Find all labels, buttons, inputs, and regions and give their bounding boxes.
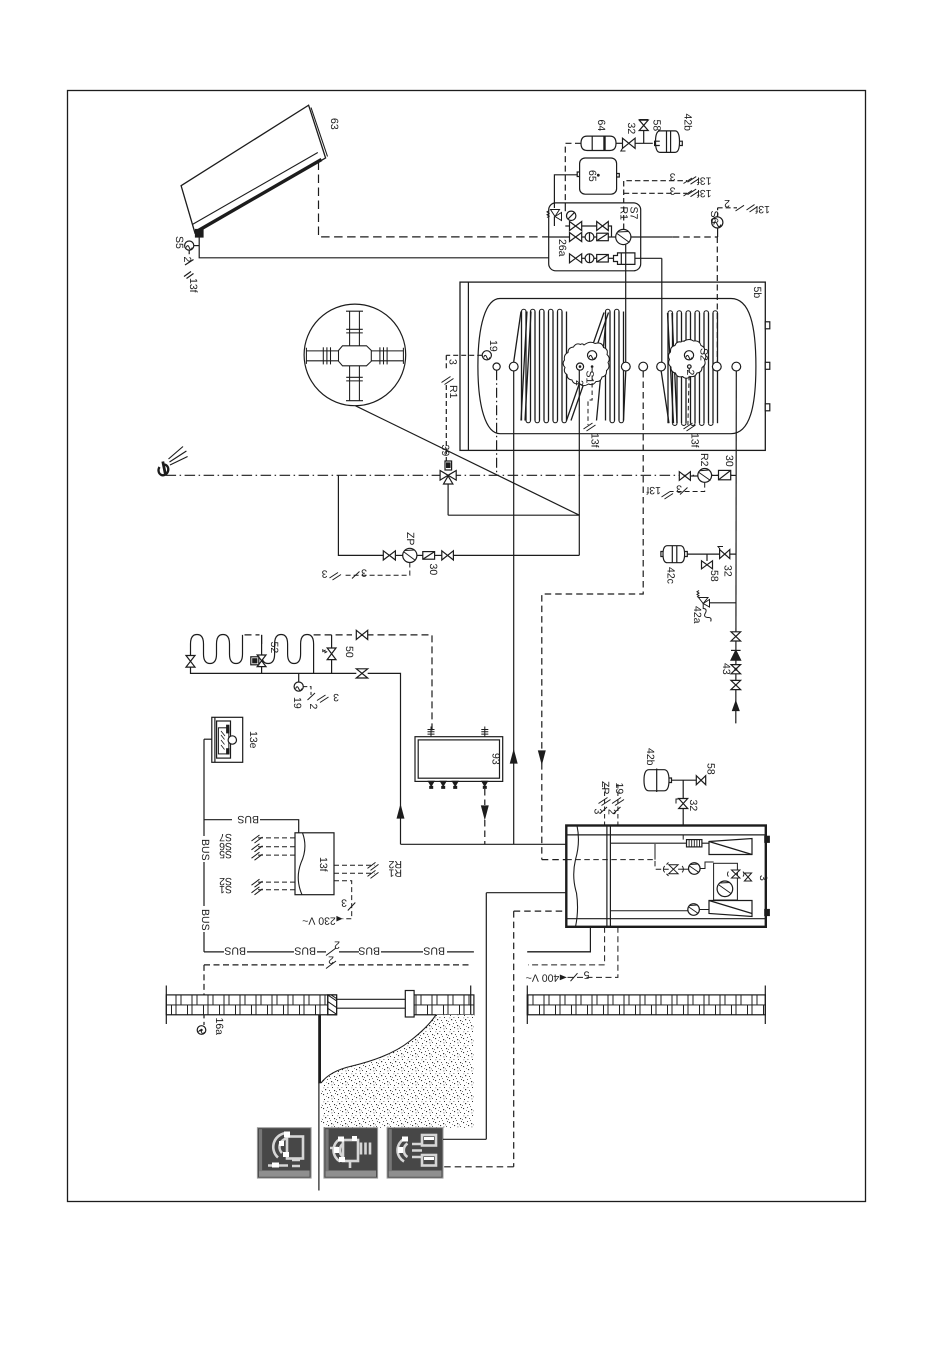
solar pump group 26a [549, 203, 641, 271]
svg-text:BUS: BUS [237, 813, 259, 825]
svg-text:2: 2 [307, 704, 319, 710]
svg-text:S5: S5 [219, 848, 232, 860]
svg-text:13f: 13f [187, 278, 199, 293]
junction box 93 [415, 737, 503, 782]
svg-text:S7: S7 [628, 207, 640, 220]
sensor S6 [712, 217, 723, 228]
svg-text:63: 63 [328, 118, 340, 130]
solar controller 65 [577, 158, 619, 194]
sensor blob S2 [668, 340, 705, 379]
S5 control line to 13f [184, 250, 194, 278]
valve with drain (43 line) [731, 665, 741, 674]
svg-text:13f: 13f [317, 857, 329, 872]
valve 58 (solar) [639, 120, 648, 144]
heating supply dashed [245, 635, 433, 733]
heat exchanger coil 2 [661, 311, 717, 426]
tank sensor 19 [482, 351, 491, 360]
valve (ZP chain left) [383, 551, 395, 560]
detail pointer line [356, 406, 580, 515]
icon solar water heating [257, 1128, 311, 1178]
overflow valve 50 [323, 635, 336, 674]
svg-text:BUS: BUS [199, 839, 211, 861]
svg-text:S6: S6 [708, 211, 720, 224]
svg-text:19: 19 [487, 340, 499, 352]
svg-text:S5: S5 [173, 236, 185, 249]
icon solar backup heating [324, 1128, 378, 1178]
pump bottom pipes [527, 927, 618, 981]
valve (43 line lower) [731, 680, 741, 689]
svg-text:3: 3 [592, 809, 604, 815]
dashed drop from 93 to heat pump [482, 789, 488, 844]
pipes into heat pump left [401, 844, 567, 1167]
outdoor sensor 16a [197, 1026, 206, 1035]
svg-text:65: 65 [586, 170, 598, 182]
svg-text:BUS: BUS [199, 909, 211, 931]
wire 65 to pump group [554, 175, 577, 208]
heat pump unit 3 [566, 826, 769, 927]
svg-text:2: 2 [328, 954, 334, 966]
internal dashed line [566, 860, 664, 870]
DHW outlet dash-dot from tank [496, 370, 498, 475]
air separator 64 [581, 136, 616, 150]
check box 30 (ZP chain) [423, 552, 442, 560]
sensor wires into 13f [252, 835, 296, 895]
valve R2 chain [679, 469, 736, 483]
heat exchanger coil 1 [514, 309, 626, 423]
3-way mixing valve 39 [440, 461, 456, 484]
arrow up on riser 513 [511, 751, 517, 763]
svg-text:58: 58 [708, 570, 720, 582]
svg-text:3: 3 [676, 483, 682, 495]
svg-text:42c: 42c [665, 567, 677, 584]
thermostatic valve 52 [251, 635, 266, 674]
svg-text:42b: 42b [682, 114, 694, 132]
93 bottom connectors (arrows) [429, 781, 488, 788]
svg-text:13f: 13f [697, 187, 712, 199]
svg-text:13f: 13f [755, 203, 770, 215]
svg-text:42a: 42a [691, 606, 703, 624]
R2 ref dashed [662, 483, 705, 499]
svg-text:3: 3 [322, 568, 328, 580]
svg-text:30: 30 [723, 455, 735, 467]
valve 58 (heating) [696, 776, 705, 785]
bottom row 26a: valve, check, slashbox, flow meter [570, 253, 662, 265]
svg-text:230 V~: 230 V~ [302, 914, 336, 926]
page frame border [68, 91, 866, 1202]
solar collector 63 [181, 105, 327, 237]
svg-text:3: 3 [447, 359, 459, 365]
pipe pump group to tank port (return) [661, 258, 663, 362]
shower head [159, 447, 188, 476]
svg-text:30: 30 [427, 564, 439, 576]
line to sensor S6 [660, 228, 718, 237]
svg-text:19: 19 [613, 783, 625, 795]
svg-text:5: 5 [584, 968, 590, 980]
pipe heat pump to icon3 (dashed) [443, 1166, 514, 1168]
DHW dash-dot line shower to tank [166, 474, 736, 476]
svg-text:50: 50 [343, 646, 355, 658]
svg-text:BUS: BUS [423, 945, 445, 957]
wiring centre 13f [295, 833, 334, 895]
BUS horizontal line [204, 948, 590, 956]
slash marks R1/S7 ref lines [684, 177, 700, 197]
safety valve group in 26a [547, 210, 562, 227]
svg-text:52: 52 [268, 642, 280, 654]
check valve (43 line) [731, 650, 741, 660]
control dashed line lower [204, 961, 472, 1025]
pipe from tank port down (to heat pump) [513, 371, 515, 844]
svg-text:19: 19 [291, 697, 303, 709]
svg-text:58: 58 [651, 120, 663, 132]
flow arrow (43 line) [733, 702, 739, 711]
sensor S5 [185, 241, 200, 250]
arrow down on dashed 541 [539, 751, 545, 763]
valve 32 (mid) with cap [718, 547, 730, 559]
wall mid section [414, 986, 474, 1025]
icon solar central heating [387, 1128, 443, 1178]
pump inside (top) [678, 862, 714, 874]
ZP control dashed [330, 563, 410, 581]
tank vessel [478, 299, 756, 434]
svg-text:2: 2 [724, 197, 730, 209]
230V wire from 13f [334, 881, 355, 922]
svg-text:400 V~: 400 V~ [526, 972, 560, 984]
svg-text:2: 2 [684, 370, 696, 376]
circulation pipe from tank port down [578, 370, 580, 555]
main row 26a: valve, check, slashbox, pump R1 [549, 229, 660, 244]
control line R1 to 13f [624, 181, 687, 229]
svg-text:43: 43 [720, 663, 732, 675]
93 top connectors [428, 727, 489, 737]
control dashed from tank port to heat pump [542, 371, 643, 860]
radiator shutoff valve (left) [186, 656, 195, 668]
svg-text:13f: 13f [697, 175, 712, 187]
pump inside (bottom) [610, 904, 709, 916]
shut-off valve (43 line) [731, 632, 741, 641]
svg-text:42b: 42b [644, 748, 656, 766]
system controller 13e [212, 717, 243, 762]
circulation branch pipe [338, 475, 383, 555]
compressor enclosure [714, 863, 738, 900]
svg-text:3: 3 [333, 691, 339, 703]
svg-text:BUS: BUS [294, 945, 316, 957]
S1 ref dashed [584, 368, 596, 431]
svg-text:S1: S1 [219, 883, 232, 895]
svg-text:BUS: BUS [224, 945, 246, 957]
svg-text:R1: R1 [388, 867, 402, 879]
R1 R2 wires out of 13f [334, 862, 379, 878]
S6 control ref line [718, 205, 758, 217]
fan/evaporator bottom [709, 901, 752, 917]
safety group 42a [697, 591, 736, 622]
heater block inside [610, 840, 709, 847]
svg-text:S2: S2 [698, 348, 710, 361]
heating return valve [356, 669, 367, 678]
svg-text:32: 32 [722, 565, 734, 577]
svg-text:3: 3 [757, 875, 769, 881]
floor heating coil [191, 635, 314, 674]
svg-text:2: 2 [181, 257, 193, 263]
fan/evaporator top [709, 839, 752, 855]
heating return line [191, 667, 401, 844]
small valve inside [744, 873, 751, 881]
19 ref dashed [303, 687, 328, 703]
DHW storage tank 5b outer casing [460, 282, 765, 450]
mixing valve inside [663, 863, 683, 876]
valve 32 (heating) with cap [676, 780, 688, 825]
svg-text:R1: R1 [447, 385, 459, 399]
solar return pipe (dashed) collector to pump group [319, 162, 549, 237]
S2 ref dashed [684, 368, 696, 431]
detail circle (pipe crossing) [304, 304, 406, 406]
internal connect lines [655, 835, 683, 869]
svg-text:13f: 13f [589, 433, 601, 448]
control refs into heat pump top [599, 784, 625, 826]
wall right section [527, 986, 765, 1025]
svg-text:R2: R2 [698, 453, 710, 467]
S6 dashed into tank [716, 237, 718, 362]
svg-text:58: 58 [705, 763, 717, 775]
sensor blob S1 [563, 342, 609, 385]
wire 64 to pump group (dashed) [565, 143, 581, 202]
svg-text:32: 32 [625, 123, 637, 135]
cold water pipe from tank port down [735, 371, 738, 723]
circulation pump ZP [395, 548, 422, 562]
pipe heat pump to icon3 (solid) [443, 1138, 486, 1140]
svg-text:13f: 13f [689, 433, 701, 448]
heating flow arrow up (left riser) [397, 806, 403, 818]
pipe pump group to tank port (supply) [625, 245, 627, 362]
svg-text:64: 64 [595, 120, 607, 132]
svg-text:26a: 26a [556, 239, 568, 257]
4-way valve inside [728, 870, 744, 878]
svg-text:5b: 5b [751, 287, 763, 299]
solar flow pipe (solid) collector to pump group [199, 237, 549, 258]
thermometer in 26a [565, 203, 576, 221]
svg-text:32: 32 [687, 800, 699, 812]
heating supply valve [356, 630, 367, 639]
tank mounting lugs [765, 322, 770, 411]
BUS wire to 13f box [204, 820, 299, 833]
membrane vessel 42c [661, 546, 736, 563]
svg-text:39: 39 [439, 445, 451, 457]
svg-text:ZP: ZP [599, 781, 611, 794]
svg-text:13f: 13f [646, 484, 661, 496]
svg-text:93: 93 [490, 753, 502, 765]
earth line down to icons [318, 1083, 320, 1191]
valve (ZP chain right) [442, 551, 580, 560]
valve 32 (solar) [616, 138, 653, 151]
svg-text:ZP: ZP [404, 532, 416, 545]
expansion vessel 42b (solar) [655, 131, 683, 153]
wall left section [166, 986, 336, 1025]
svg-text:2: 2 [606, 809, 618, 815]
door opening lintel [337, 991, 414, 1018]
svg-text:3: 3 [361, 567, 367, 579]
ref line R1/3 from sensor 19 [442, 355, 483, 461]
svg-text:2: 2 [334, 939, 340, 951]
valve pair top row 26a [565, 222, 611, 238]
svg-text:3: 3 [670, 185, 676, 197]
circulation riser and link [448, 484, 579, 515]
expansion vessel 42b (heating) [644, 769, 701, 793]
BUS riser wire [204, 739, 212, 952]
svg-text:3: 3 [341, 897, 347, 909]
svg-text:BUS: BUS [358, 945, 380, 957]
sensor 19 (heating) [294, 673, 303, 691]
valve 58 (mid) [702, 554, 713, 569]
ground/earth mound [318, 1015, 474, 1128]
svg-text:16a: 16a [213, 1018, 225, 1036]
svg-text:3: 3 [670, 171, 676, 183]
tank ports middle row [493, 362, 741, 371]
svg-text:13e: 13e [247, 731, 259, 749]
